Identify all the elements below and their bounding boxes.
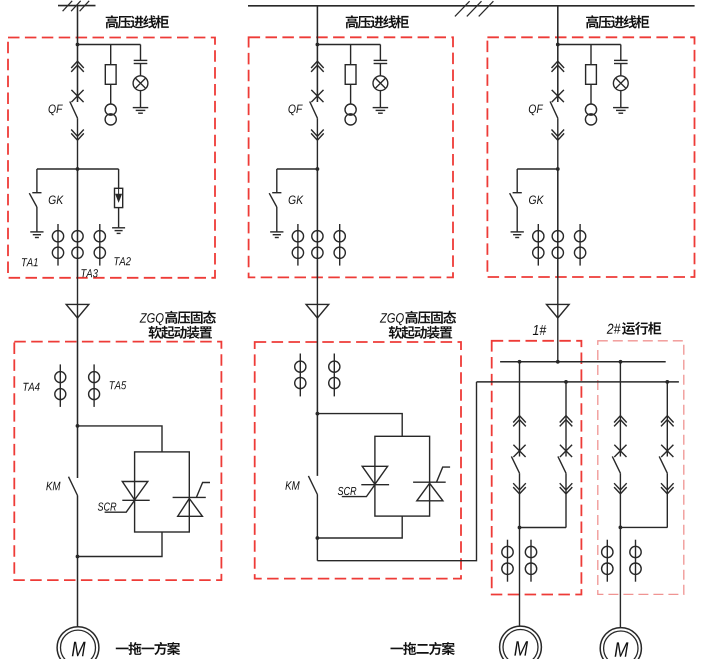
label GK (column 2) bbox=[289, 196, 304, 205]
breaker QF contact cross (column 2) bbox=[311, 90, 323, 102]
wire: capacitor to lamp (column 3) bbox=[620, 64, 622, 76]
wire: capacitor to lamp (column 2) bbox=[379, 64, 381, 76]
breaker blade of 1# soft branch bbox=[558, 456, 566, 473]
CT stem right (column 3) bbox=[579, 224, 581, 266]
label TA3 bbox=[81, 269, 98, 277]
wire: feeder below breaker (column 2) bbox=[316, 118, 318, 169]
earthing switch GK blade (column 3) bbox=[510, 193, 518, 207]
ground symbol of lamp branch (column 1) bbox=[133, 108, 149, 114]
drawout chevrons upper of 1# soft branch bbox=[560, 416, 573, 427]
current transformer at x300 (column 2) bbox=[295, 361, 306, 389]
ground symbol of GK (column 3) bbox=[511, 232, 524, 238]
label M (motor 1) bbox=[72, 642, 86, 656]
current transformer circles at x538 (column 3) bbox=[533, 231, 544, 259]
breaker cross of 2# soft branch bbox=[661, 445, 673, 457]
wire: GK lower lead (column 2) bbox=[276, 207, 278, 232]
wire: indicator branch lead (column 3) bbox=[620, 45, 622, 61]
node: direct bus tap 1# bbox=[518, 360, 522, 364]
CT stem at x300 (column 2) bbox=[299, 354, 301, 397]
drawout chevrons lower of 1# soft branch bbox=[560, 483, 573, 494]
label M (motor 2) bbox=[514, 641, 528, 655]
contactor KM blade (column 2) bbox=[308, 476, 317, 495]
wire: lamp to ground (column 2) bbox=[379, 91, 381, 108]
current transformer circles at x298 (column 2) bbox=[292, 231, 303, 259]
fuse FU (column 3) bbox=[586, 65, 597, 85]
current transformer TA5 bbox=[89, 372, 100, 400]
label 1# bbox=[533, 325, 547, 335]
node: 1# join junction bbox=[518, 526, 522, 530]
wire: GK upper lead (column 1) bbox=[36, 169, 38, 193]
capacitor plates (column 3) bbox=[614, 60, 628, 63]
wire: feeder through CT row (column 2) bbox=[316, 169, 318, 278]
motor M2 bbox=[500, 626, 542, 664]
drawout chevrons lower of 1# direct branch bbox=[513, 483, 526, 494]
drawout contact chevrons upper (column 2) bbox=[311, 61, 324, 72]
breaker cross of 2# direct branch bbox=[614, 445, 626, 457]
earthing switch GK blade (column 1) bbox=[29, 193, 37, 207]
node: 2# join junction bbox=[619, 526, 623, 530]
current transformer circles at x58 (column 1) bbox=[52, 231, 63, 259]
breaker QF blade (column 2) bbox=[310, 102, 318, 119]
wire: GK upper lead (column 2) bbox=[276, 169, 278, 193]
node: bus junction at main feeder bbox=[556, 360, 560, 364]
breaker QF blade (column 1) bbox=[70, 102, 78, 119]
wire: capacitor to lamp (column 1) bbox=[140, 64, 142, 76]
drawout contact chevrons lower (column 3) bbox=[552, 130, 565, 141]
run cabinet 1# box bbox=[492, 341, 582, 595]
label ZGQ高压固态软起动装置 (column 1) bbox=[140, 311, 216, 339]
node: GK branch junction (column 2) bbox=[316, 167, 320, 171]
drawout chevrons lower of 2# direct branch bbox=[614, 483, 627, 494]
wire: GK branch (column 2) bbox=[277, 168, 318, 170]
ground symbol of lamp branch (column 2) bbox=[373, 108, 389, 114]
soft starter box (column 1) bbox=[14, 342, 221, 580]
contactor KM blade (column 1) bbox=[69, 477, 78, 496]
current transformer circles at x580 (column 3) bbox=[574, 231, 585, 259]
label M (motor 3) bbox=[615, 642, 629, 656]
node: GK branch junction (column 3) bbox=[556, 167, 560, 171]
incoming cabinet box (column 3) bbox=[487, 37, 694, 277]
wire: 1# branches join bbox=[520, 527, 567, 529]
wire: lamp to ground (column 3) bbox=[620, 91, 622, 108]
wire: fuse to PT (column 3) bbox=[590, 84, 592, 104]
CT stem right (1#) bbox=[530, 540, 532, 582]
ground symbol of GK (column 2) bbox=[270, 232, 283, 238]
indicator lamp HL (column 1) bbox=[133, 76, 148, 91]
CT stem at x334 (column 2) bbox=[333, 354, 335, 397]
indicator lamp HL (column 2) bbox=[373, 76, 388, 91]
node: bypass merge junction (column 1) bbox=[76, 555, 80, 559]
voltage transformer PT (column 2) bbox=[345, 104, 356, 125]
earthing switch GK blade (column 2) bbox=[269, 193, 277, 207]
soft starter box (column 2) bbox=[255, 342, 461, 579]
wire: starter output (column 2) bbox=[316, 495, 318, 561]
breaker QF contact cross (column 3) bbox=[552, 90, 564, 102]
label TA2 bbox=[114, 257, 130, 265]
wire: 1# direct branch lower lead bbox=[519, 473, 521, 527]
cable termination triangle (column 3) bbox=[547, 304, 570, 318]
current transformer circles at x558 (column 3) bbox=[552, 231, 563, 259]
wire: to thyristor branch (column 1) bbox=[78, 426, 163, 452]
CT stem right (2#) bbox=[635, 540, 637, 582]
wire: feeder through starter (column 1) bbox=[77, 318, 79, 478]
label SCR (column 1) bbox=[98, 503, 117, 511]
node: bypass split junction (column 1) bbox=[76, 424, 80, 428]
drawout chevrons upper of 2# soft branch bbox=[661, 416, 674, 427]
CT stem right (column 1) bbox=[99, 224, 101, 266]
thyristor SCR forward (column 2) bbox=[342, 466, 389, 496]
wire: PT branch lead (column 1) bbox=[110, 45, 112, 65]
wire: lamp to ground (column 1) bbox=[140, 91, 142, 108]
thyristor SCR reverse (column 1) bbox=[173, 483, 210, 517]
wire: 2# direct branch upper lead bbox=[619, 362, 621, 457]
motor M3 bbox=[600, 628, 641, 664]
indicator lamp HL (column 3) bbox=[613, 76, 628, 91]
breaker QF blade (column 3) bbox=[550, 102, 558, 119]
wire: indicator branch lead (column 2) bbox=[379, 45, 381, 61]
wire: direct bus bbox=[500, 361, 666, 363]
wire: 1# soft branch lower lead bbox=[565, 473, 567, 527]
wire: GK upper lead (column 3) bbox=[516, 169, 518, 193]
label ZGQ高压固态软起动装置 (column 2) bbox=[380, 311, 456, 339]
wire: indicator branch lead (column 1) bbox=[140, 45, 142, 61]
hatch marks on main bus bbox=[455, 1, 494, 16]
capacitor plates (column 1) bbox=[134, 60, 148, 63]
breaker cross of 1# direct branch bbox=[513, 445, 525, 457]
node: feeder/branch junction (column 3) bbox=[556, 43, 560, 47]
drawout chevrons upper of 1# direct branch bbox=[513, 416, 526, 427]
incoming cabinet box (column 1) bbox=[8, 38, 215, 278]
CT stem left (column 3) bbox=[537, 224, 539, 266]
capacitor plates (column 2) bbox=[374, 60, 388, 63]
wire: GK branch (column 1) bbox=[37, 168, 119, 170]
node: soft-start bus tap 2# bbox=[665, 380, 669, 384]
label GK (column 1) bbox=[49, 196, 64, 205]
drawout contact chevrons lower (column 1) bbox=[71, 130, 84, 141]
wire: column 3 feeder to bus bbox=[557, 318, 559, 362]
voltage transformer PT (column 1) bbox=[105, 104, 116, 125]
wire: arrester lead bbox=[118, 169, 120, 188]
hatch marks on left bus stub bbox=[63, 1, 90, 11]
label QF (column 1) bbox=[49, 105, 63, 116]
wire: feeder below breaker (column 1) bbox=[77, 118, 79, 169]
motor M1 bbox=[57, 627, 99, 664]
breaker blade of 2# soft branch bbox=[659, 456, 667, 473]
wire: main feeder upper section (column 1) bbox=[77, 6, 79, 102]
wire: thyristor branch return (column 1) bbox=[78, 532, 163, 557]
CT stem left (1#) bbox=[507, 540, 509, 582]
current transformer circles right (2#) bbox=[630, 546, 641, 574]
wire: arrester to ground bbox=[118, 208, 120, 228]
drawout contact chevrons upper (column 3) bbox=[552, 61, 565, 72]
drawout contact chevrons lower (column 2) bbox=[311, 130, 324, 141]
node: bypass split junction (column 2) bbox=[316, 412, 320, 416]
wire: feeder through CT row (column 3) bbox=[557, 169, 559, 278]
wire: 2# output to motor bbox=[619, 527, 621, 628]
label KM (column 1) bbox=[46, 482, 60, 490]
wire: main feeder upper section (column 2) bbox=[316, 6, 318, 102]
label TA5 bbox=[110, 381, 127, 389]
label: 高压进线柜 (column 1) bbox=[106, 15, 169, 28]
wire: main feeder upper section (column 3) bbox=[557, 6, 559, 102]
wire: thyristor branch return (column 2) bbox=[317, 516, 402, 538]
wire: feeder through CT row (column 1) bbox=[77, 169, 79, 278]
current transformer circles at x100 (column 1) bbox=[94, 231, 105, 259]
thyristor SCR forward (column 1) bbox=[105, 482, 150, 513]
thyristor module frame SCR (column 2) bbox=[375, 436, 430, 516]
label 一拖一方案 bbox=[116, 642, 180, 655]
drawout chevrons lower of 2# soft branch bbox=[661, 483, 674, 494]
wire: feeder below breaker (column 3) bbox=[557, 118, 559, 169]
cable termination triangle (column 2) bbox=[306, 304, 329, 318]
current transformer circles right (1#) bbox=[525, 546, 536, 574]
run cabinet 2# box bbox=[598, 341, 684, 595]
label GK (column 3) bbox=[529, 196, 544, 205]
thyristor SCR reverse (column 2) bbox=[413, 467, 450, 501]
CT stem left (2#) bbox=[606, 540, 608, 582]
label: 高压进线柜 (column 2) bbox=[346, 15, 409, 28]
label QF (column 2) bbox=[288, 105, 302, 116]
wire: 2# branches join bbox=[620, 526, 667, 528]
surge arrester F bbox=[115, 188, 123, 207]
incoming cabinet box (column 2) bbox=[249, 37, 453, 277]
wire: feeder to cable head (column 2) bbox=[316, 278, 318, 305]
breaker blade of 2# direct branch bbox=[612, 456, 620, 473]
voltage transformer PT (column 3) bbox=[585, 104, 596, 125]
ground symbol of arrester bbox=[112, 228, 125, 234]
label: 高压进线柜 (column 3) bbox=[586, 15, 649, 28]
wire: starter output to motor (column 1) bbox=[77, 496, 79, 627]
wire: auxiliary branch (column 3) bbox=[558, 44, 621, 46]
label 2#运行柜 bbox=[607, 322, 662, 335]
CT stem TA5 bbox=[93, 364, 95, 407]
node: direct bus tap 2# bbox=[619, 360, 623, 364]
earthing switch GK tick (column 2) bbox=[272, 192, 281, 194]
node: feeder/branch junction (column 2) bbox=[316, 43, 320, 47]
current transformer circles at x317 (column 2) bbox=[312, 231, 323, 259]
thyristor module frame SCR (column 1) bbox=[135, 452, 190, 532]
breaker blade of 1# direct branch bbox=[511, 456, 519, 473]
wire: 2# soft branch upper lead bbox=[666, 382, 668, 457]
drawout chevrons upper of 2# direct branch bbox=[614, 416, 627, 427]
node: bypass merge junction (column 2) bbox=[316, 536, 320, 540]
wire: 1# soft branch upper lead bbox=[565, 382, 567, 457]
wire: starter output run to cabinets bbox=[317, 382, 476, 561]
label TA4 bbox=[23, 383, 39, 391]
current transformer circles left (1#) bbox=[502, 546, 513, 574]
label 一拖二方案 bbox=[391, 642, 455, 655]
wire: 1# direct branch upper lead bbox=[519, 362, 521, 457]
wire: 1# output to motor bbox=[519, 528, 521, 627]
label TA1 bbox=[22, 258, 38, 266]
earthing switch GK tick (column 1) bbox=[32, 192, 41, 194]
drawout contact chevrons upper (column 1) bbox=[71, 61, 84, 72]
label SCR (column 2) bbox=[338, 487, 357, 495]
label QF (column 3) bbox=[529, 105, 543, 116]
node: GK branch junction (column 1) bbox=[76, 167, 80, 171]
current transformer TA4 bbox=[55, 372, 66, 400]
wire: auxiliary branch (column 2) bbox=[317, 44, 380, 46]
wire: feeder to cable head (column 1) bbox=[77, 278, 79, 305]
fuse FU (column 1) bbox=[105, 65, 116, 85]
wire: soft-start bus bbox=[477, 381, 679, 383]
earthing switch GK tick (column 3) bbox=[513, 192, 522, 194]
wire: auxiliary branch (column 1) bbox=[78, 44, 141, 46]
cable termination triangle (column 1) bbox=[66, 304, 89, 318]
wire: feeder to cable head (column 3) bbox=[557, 278, 559, 305]
breaker QF contact cross (column 1) bbox=[71, 90, 83, 102]
current transformer circles at x78 (column 1) bbox=[72, 231, 83, 259]
wire: main incoming bus (middle & right columns) bbox=[248, 5, 695, 7]
wire: GK branch (column 3) bbox=[517, 168, 558, 170]
CT stem left (column 1) bbox=[57, 224, 59, 266]
current transformer at x334 (column 2) bbox=[329, 361, 340, 389]
wire: GK lower lead (column 1) bbox=[36, 207, 38, 232]
label KM (column 2) bbox=[285, 481, 299, 489]
wire: fuse to PT (column 2) bbox=[350, 84, 352, 104]
wire: fuse to PT (column 1) bbox=[110, 84, 112, 104]
fuse FU (column 2) bbox=[345, 65, 356, 85]
wire: PT branch lead (column 2) bbox=[350, 45, 352, 65]
wire: feeder through starter (column 2) bbox=[316, 318, 318, 476]
ground symbol of lamp branch (column 3) bbox=[613, 108, 629, 114]
ground symbol of GK (column 1) bbox=[30, 232, 43, 238]
breaker cross of 1# soft branch bbox=[560, 445, 572, 457]
current transformer circles left (2#) bbox=[602, 546, 613, 574]
wire: left incoming bus stub bbox=[58, 5, 96, 7]
node: soft-start bus tap 1# bbox=[564, 380, 568, 384]
wire: 2# direct branch lower lead bbox=[619, 473, 621, 527]
wire: GK lower lead (column 3) bbox=[516, 207, 518, 232]
CT stem right (column 2) bbox=[339, 224, 341, 266]
wire: 2# soft branch lower lead bbox=[666, 473, 668, 527]
CT stem left (column 2) bbox=[297, 224, 299, 266]
CT stem TA4 bbox=[59, 364, 61, 407]
current transformer circles at x340 (column 2) bbox=[334, 231, 345, 259]
node: feeder/branch junction (column 1) bbox=[76, 43, 80, 47]
wire: to thyristor branch (column 2) bbox=[317, 414, 402, 437]
wire: PT branch lead (column 3) bbox=[590, 45, 592, 65]
